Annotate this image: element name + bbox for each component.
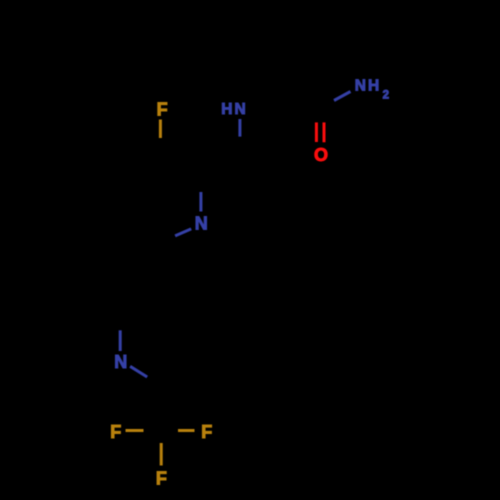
svg-text:HN: HN	[221, 101, 247, 118]
bond N5-C6 (blue half-bond down-left)	[175, 229, 191, 236]
svg-text:NH: NH	[355, 77, 381, 94]
svg-text:F: F	[201, 422, 212, 442]
bond C3-F1 (orange half-bond)	[159, 120, 162, 139]
bond N6-C6' (blue half-bond up)	[119, 330, 122, 351]
bond C9-N3 (blue half-bond down-left to carbonyl carbon)	[334, 92, 351, 101]
bond N2-C7 (blue half-bond down to methine carbon)	[238, 119, 241, 137]
svg-text:N: N	[195, 214, 208, 234]
svg-text:F: F	[157, 99, 168, 119]
svg-text:F: F	[110, 422, 121, 442]
bond C10-F7 (orange half-bond, horizontal left)	[126, 429, 144, 432]
svg-text:2: 2	[383, 90, 389, 102]
bond C10-F8 (orange half-bond, horizontal right)	[178, 429, 195, 432]
svg-text:O: O	[314, 145, 328, 165]
bond N6-C2' (blue half-bond down-right)	[130, 366, 147, 377]
bond N5-C2 (blue half-bond up)	[199, 192, 202, 212]
svg-text:N: N	[114, 352, 127, 372]
bond C10-F9 (orange half-bond, vertical down)	[160, 443, 163, 466]
bond C9=O4 double bond (red halves)	[315, 122, 318, 142]
svg-text:F: F	[156, 469, 167, 489]
